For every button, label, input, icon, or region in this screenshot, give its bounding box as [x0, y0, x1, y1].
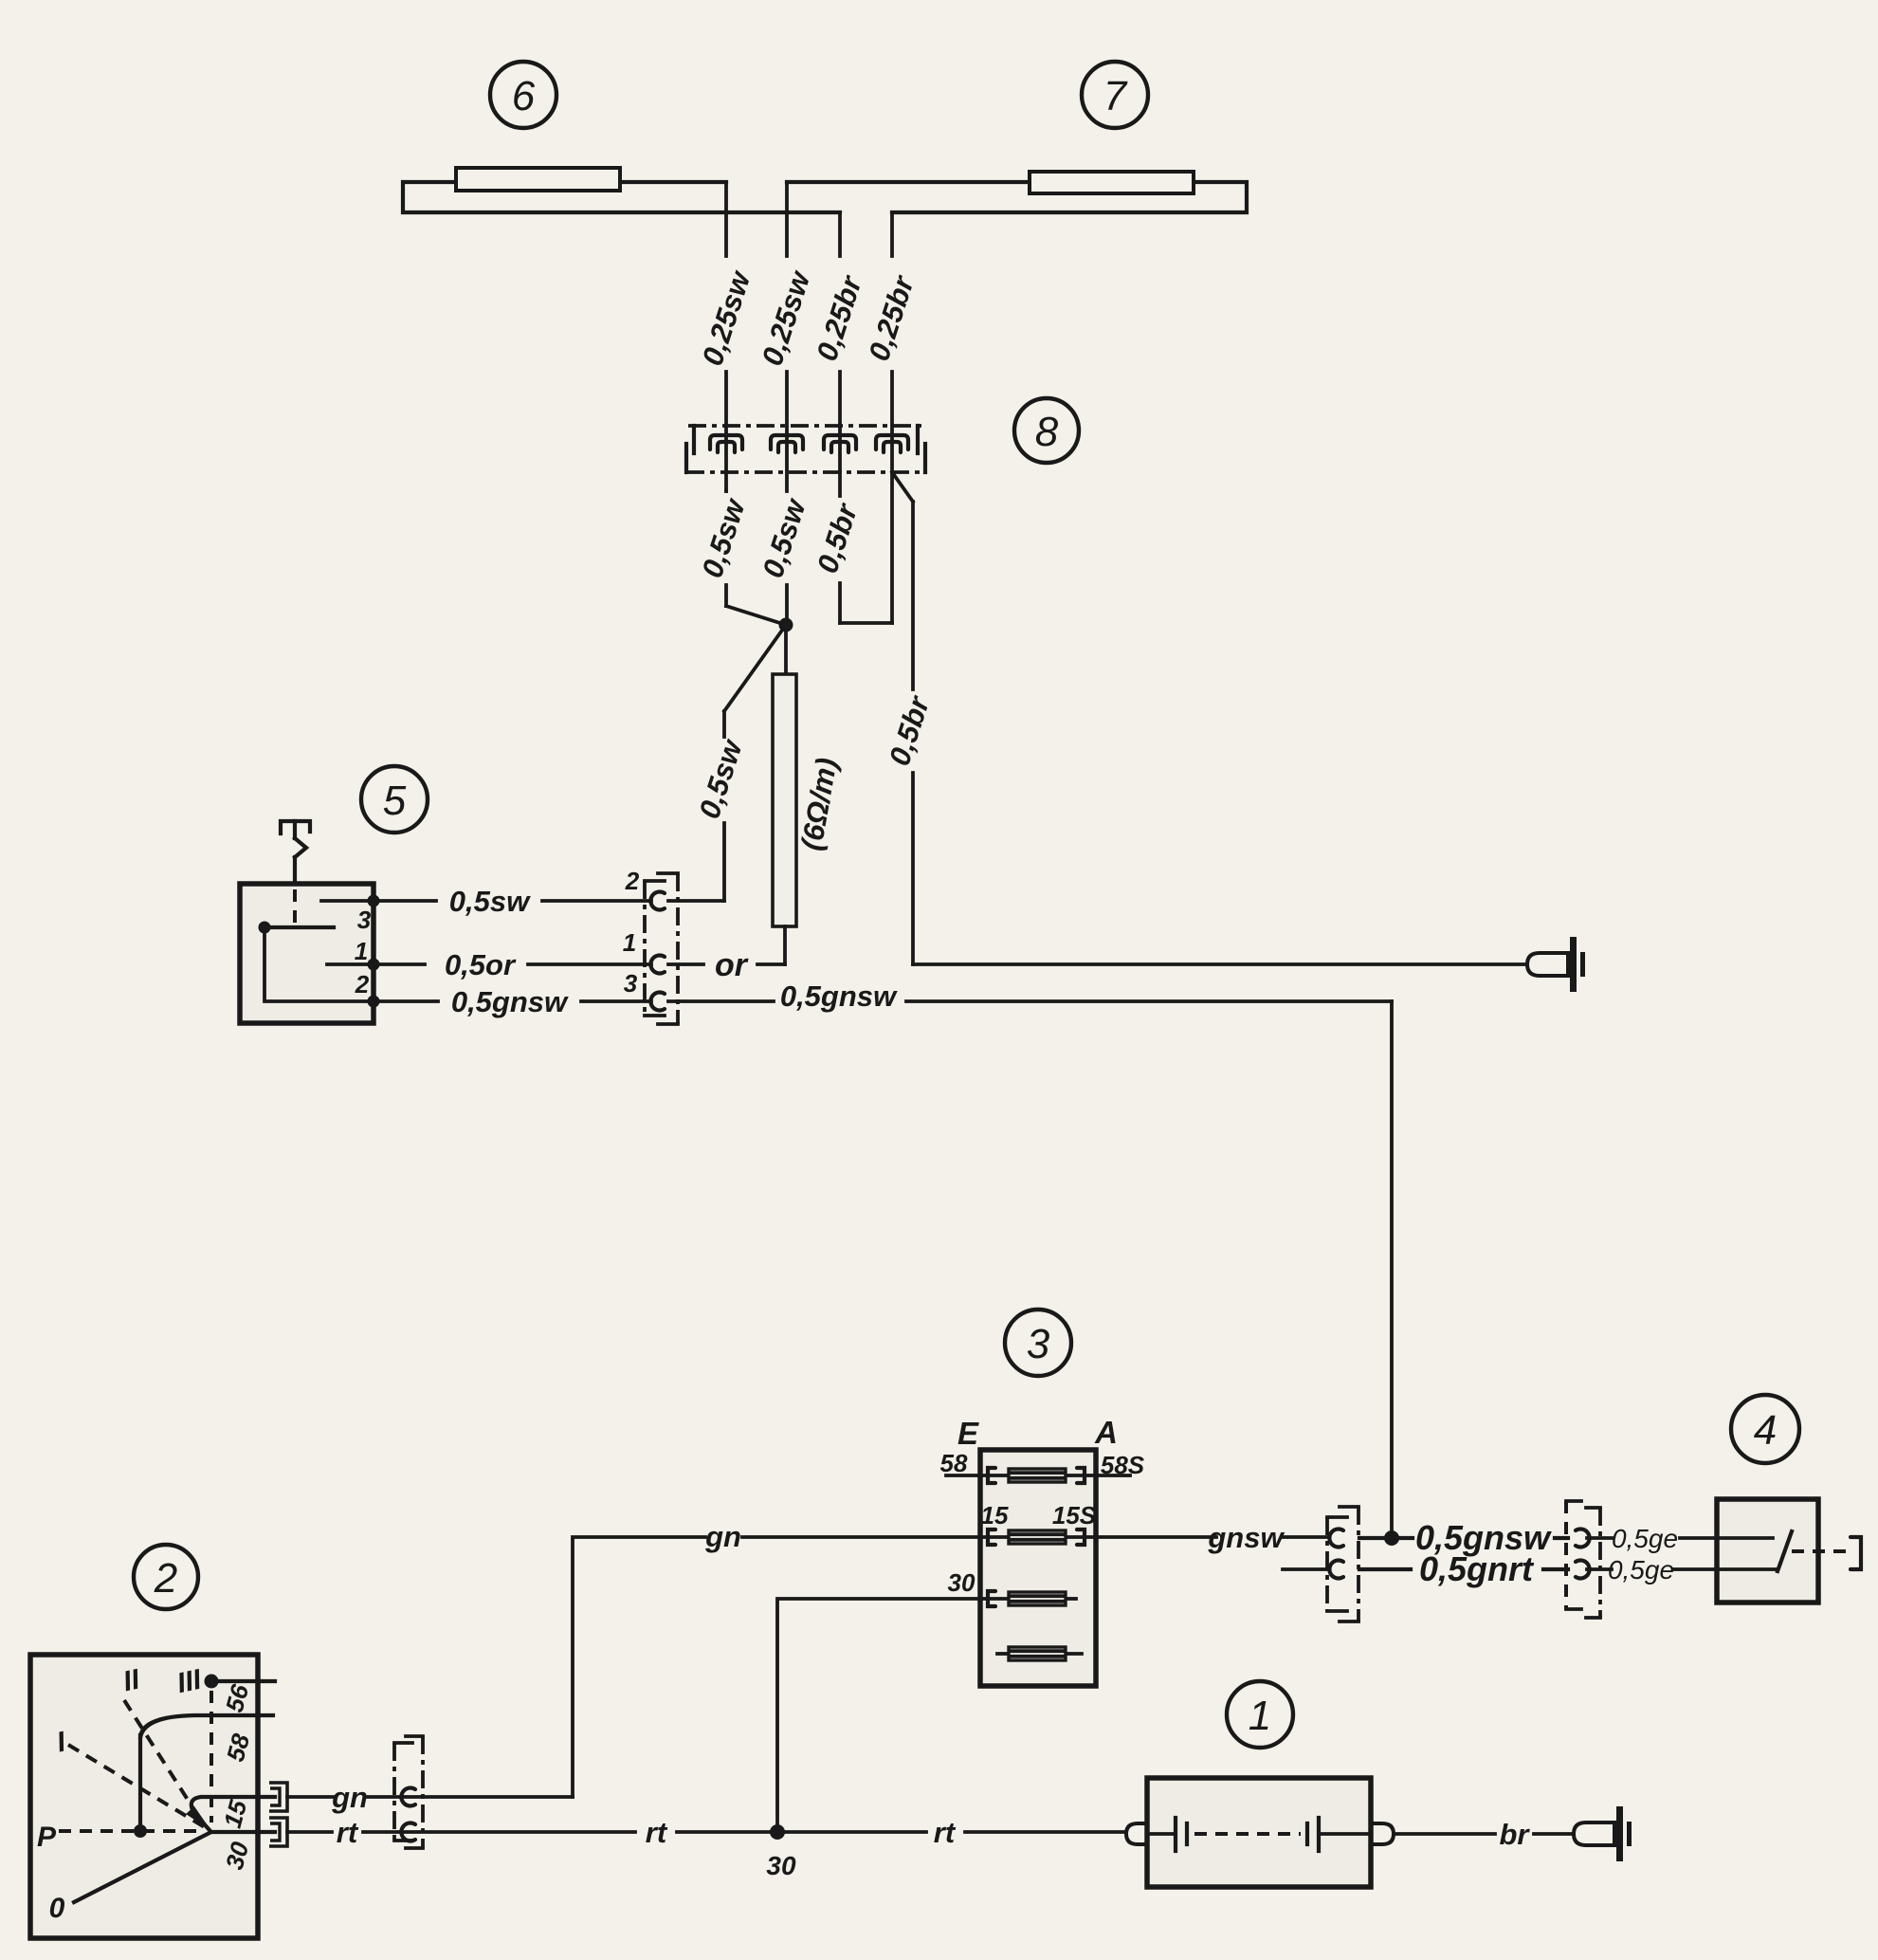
contact stub to pin 3	[321, 899, 374, 903]
svg-text:4: 4	[1754, 1407, 1777, 1454]
selector arrowhead	[186, 1806, 211, 1831]
svg-text:3: 3	[357, 906, 372, 934]
wire gn (ignition 15 to fuse box)	[287, 1520, 980, 1814]
svg-text:0,5br: 0,5br	[811, 499, 865, 577]
pin 3 node	[368, 895, 380, 907]
wire 0,5gnsw (to switch 4)	[1359, 1518, 1568, 1557]
switch 4 actuator (dashed)	[1792, 1537, 1861, 1569]
wire 30 (rt node up to fuse box)	[777, 1599, 980, 1832]
wire 0,5ge (upper)	[1587, 1524, 1717, 1553]
svg-text:0,5ge: 0,5ge	[1612, 1524, 1678, 1553]
svg-text:30: 30	[948, 1568, 975, 1597]
3-pin inline connector (pins 2/1/3)	[623, 867, 678, 1024]
fuse row 15	[980, 1521, 1327, 1554]
fuse holder body	[1126, 1778, 1394, 1887]
svg-text:0,5sw: 0,5sw	[449, 885, 531, 918]
svg-text:0: 0	[49, 1893, 65, 1924]
wire 0,5sw (pin 3 row)	[374, 625, 786, 918]
connector 8 housing	[686, 426, 925, 472]
wire 0,25sw (element 7 to connector pin 2)	[756, 182, 817, 491]
svg-text:rt: rt	[337, 1816, 359, 1849]
svg-text:E: E	[957, 1416, 979, 1451]
svg-text:15: 15	[981, 1501, 1009, 1530]
svg-text:A: A	[1094, 1415, 1118, 1450]
switch arm	[264, 925, 334, 929]
switch 4 body	[1717, 1499, 1818, 1603]
svg-text:br: br	[1500, 1818, 1531, 1851]
svg-text:P: P	[37, 1822, 57, 1853]
svg-text:gn: gn	[704, 1520, 741, 1553]
callout circle 3	[1005, 1310, 1071, 1376]
fuse box body	[980, 1450, 1096, 1686]
contact stub to pin 1	[327, 962, 374, 966]
connector 8 pin 3	[824, 435, 856, 452]
terminal 15 line with arc	[191, 1797, 275, 1830]
svg-text:0,5ge: 0,5ge	[1608, 1555, 1674, 1584]
svg-text:5: 5	[383, 778, 407, 824]
wire 0,5or (pin 1 row)	[374, 947, 785, 983]
resistor (6 ohm/m) heated antenna element	[773, 674, 844, 926]
svg-text:0,25br: 0,25br	[862, 270, 921, 365]
contact riser (P position)	[138, 1735, 142, 1831]
svg-text:0,5gnsw: 0,5gnsw	[451, 985, 569, 1018]
svg-text:rt: rt	[646, 1816, 668, 1849]
callout circle 2	[134, 1545, 198, 1609]
wire 0,25br (element 6 to connector pin 3)	[810, 212, 868, 472]
node 30 on rt wire	[770, 1824, 785, 1840]
wire 0,5sw (connector 8 pin1 down to junction)	[695, 491, 786, 625]
fuse element inside holder	[1149, 1818, 1371, 1851]
svg-text:1: 1	[623, 928, 636, 957]
svg-text:3: 3	[624, 969, 638, 998]
svg-text:3: 3	[1027, 1321, 1050, 1367]
svg-text:rt: rt	[934, 1816, 957, 1849]
wire junction to resistor	[784, 625, 788, 674]
svg-text:0,25br: 0,25br	[810, 270, 868, 365]
svg-text:(6Ω/m): (6Ω/m)	[794, 756, 844, 853]
2-pin inline connector (gnsw/gnrt)	[1327, 1507, 1358, 1621]
junction node (0,5sw)	[779, 618, 793, 632]
ignition switch body	[30, 1655, 258, 1938]
switch 4 contacts	[1717, 1531, 1792, 1571]
svg-text:15S: 15S	[1052, 1501, 1097, 1530]
wire 0,25sw (element 6 to connector pin 1)	[696, 182, 757, 491]
connector 8 pin 2	[771, 435, 803, 452]
wire pivot to pin 2	[264, 927, 374, 1001]
callout circle 1	[1227, 1681, 1293, 1748]
wire rt (ignition 30 to fuse 1)	[287, 1816, 1126, 1849]
heater element 6 (left bar)	[403, 168, 840, 212]
connector 8 pin 4	[876, 435, 908, 452]
svg-text:2: 2	[625, 867, 640, 895]
component 5 box	[240, 884, 374, 1023]
svg-text:0,5gnsw: 0,5gnsw	[780, 980, 898, 1013]
svg-text:6: 6	[512, 73, 536, 119]
fuse row 30	[980, 1591, 1076, 1606]
svg-text:0,25sw: 0,25sw	[756, 266, 817, 369]
position 0 contact line	[74, 1833, 210, 1902]
dashed position line I	[68, 1745, 205, 1827]
svg-text:2: 2	[154, 1555, 177, 1602]
callout circle 7	[1082, 62, 1148, 128]
callout circle 6	[490, 62, 556, 128]
wire 0,5br (connector 8 pin4 to ground)	[883, 472, 1526, 964]
svg-text:58: 58	[940, 1449, 968, 1477]
wire 0,25br (element 7 to connector pin 4)	[862, 212, 921, 472]
svg-text:or: or	[715, 947, 749, 983]
callout circle 4	[1731, 1395, 1799, 1463]
wire 0,5ge (lower)	[1587, 1555, 1717, 1584]
wire resistor bottom to or-row	[783, 926, 787, 964]
svg-text:7: 7	[1103, 73, 1128, 119]
dashed position line P	[59, 1829, 201, 1833]
svg-text:8: 8	[1035, 409, 1059, 455]
switch pivot node	[259, 922, 271, 934]
svg-text:gn: gn	[331, 1781, 368, 1814]
svg-text:0,5sw: 0,5sw	[692, 735, 749, 823]
antenna symbol	[281, 821, 310, 885]
svg-text:30: 30	[766, 1851, 796, 1880]
ground symbol (bottom, br)	[1574, 1806, 1632, 1861]
wire br (fuse to ground)	[1394, 1818, 1574, 1851]
callout circle 5	[361, 766, 428, 833]
wire 0,5sw (connector 8 pin2 down to junction)	[756, 494, 812, 626]
svg-text:0,5gnrt: 0,5gnrt	[1419, 1549, 1535, 1588]
wire 0,5br (connector 8 pin3 jumper to pin4)	[811, 472, 892, 623]
callout circle 8	[1014, 398, 1079, 463]
fuse row 58	[946, 1468, 1130, 1483]
svg-text:0,5sw: 0,5sw	[695, 494, 752, 582]
terminal 56 node	[205, 1675, 219, 1689]
pin 2 node	[368, 996, 380, 1008]
svg-text:0,5br: 0,5br	[883, 691, 937, 770]
spare fuse row	[997, 1647, 1082, 1660]
svg-text:1: 1	[355, 937, 368, 965]
dashed position line III	[210, 1691, 213, 1823]
dashed position line II	[124, 1700, 203, 1823]
heater element 7 (right bar)	[787, 172, 1247, 212]
male plug terminal 30 at box edge	[269, 1818, 287, 1846]
antenna lead-in (dashed)	[293, 889, 297, 924]
terminal 56 line	[211, 1679, 275, 1683]
ground symbol (right, 0,5br)	[1527, 937, 1585, 992]
junction node gnsw	[1384, 1530, 1399, 1546]
svg-text:1: 1	[1249, 1693, 1271, 1739]
svg-text:gnsw: gnsw	[1207, 1521, 1285, 1554]
connector 8 pin 1	[710, 435, 742, 452]
male plug terminal 15 at box edge	[269, 1783, 287, 1811]
2-pin inline connector (gn/rt)	[394, 1736, 423, 1848]
svg-text:2: 2	[355, 970, 370, 998]
wire 0,5gnsw (pin 2 row)	[374, 980, 1392, 1538]
dashed 2-pin connector	[1566, 1501, 1600, 1618]
pin 1 node	[368, 959, 380, 971]
svg-text:0,5or: 0,5or	[445, 948, 517, 981]
terminal 30 line	[211, 1830, 275, 1834]
terminal 58 line with arc	[140, 1715, 273, 1737]
wire 0,5gnrt stub and label	[1283, 1549, 1568, 1588]
P contact node	[134, 1824, 147, 1838]
svg-text:0,5sw: 0,5sw	[756, 494, 812, 582]
svg-text:0,25sw: 0,25sw	[696, 266, 757, 369]
